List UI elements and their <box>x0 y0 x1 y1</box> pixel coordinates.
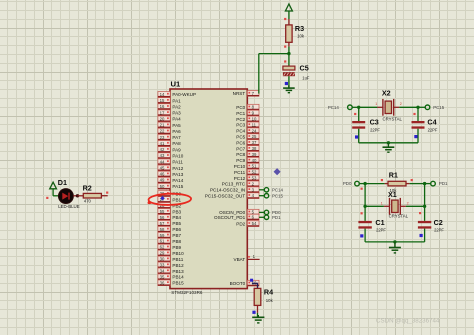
svg-text:C4: C4 <box>427 118 436 127</box>
svg-text:54: 54 <box>252 221 257 226</box>
svg-text:PD0: PD0 <box>343 181 352 186</box>
svg-text:PC9: PC9 <box>236 158 245 163</box>
svg-text:BOOT0: BOOT0 <box>230 281 246 286</box>
svg-text:R4: R4 <box>264 287 273 296</box>
svg-text:PB5: PB5 <box>172 221 181 226</box>
svg-text:PA6: PA6 <box>172 129 181 134</box>
svg-text:PB14: PB14 <box>172 275 184 280</box>
svg-text:X1: X1 <box>388 190 397 199</box>
svg-text:PC5: PC5 <box>236 135 245 140</box>
svg-text:44: 44 <box>160 159 165 164</box>
svg-text:CSDN @qq_38236744: CSDN @qq_38236744 <box>376 318 440 325</box>
svg-text:PA15: PA15 <box>172 184 183 189</box>
svg-text:PA14: PA14 <box>172 178 183 183</box>
svg-text:23: 23 <box>160 135 165 140</box>
svg-text:PC10: PC10 <box>234 164 246 169</box>
svg-text:PC15: PC15 <box>272 193 284 198</box>
svg-text:PA3: PA3 <box>172 111 181 116</box>
svg-text:34: 34 <box>160 268 165 273</box>
svg-text:35: 35 <box>160 274 165 279</box>
svg-text:PC12: PC12 <box>234 176 246 181</box>
svg-text:22PF: 22PF <box>434 228 444 233</box>
svg-text:22PF: 22PF <box>428 127 438 132</box>
svg-text:PC7: PC7 <box>236 146 245 151</box>
svg-text:21: 21 <box>160 123 165 128</box>
svg-text:PC4: PC4 <box>236 129 245 134</box>
svg-text:PB6: PB6 <box>172 227 181 232</box>
svg-text:PC15: PC15 <box>433 105 445 110</box>
svg-text:PC15-OSC32_OUT: PC15-OSC32_OUT <box>205 194 246 199</box>
svg-text:38: 38 <box>252 146 257 151</box>
svg-text:PB8: PB8 <box>172 239 181 244</box>
svg-text:PC11: PC11 <box>234 170 246 175</box>
svg-text:PC14-OSC32_IN: PC14-OSC32_IN <box>210 188 245 193</box>
svg-text:PA0-WKUP: PA0-WKUP <box>172 92 196 97</box>
svg-text:C3: C3 <box>370 118 379 127</box>
svg-text:50: 50 <box>160 184 165 189</box>
svg-text:PA7: PA7 <box>172 135 181 140</box>
svg-text:52: 52 <box>252 170 257 175</box>
svg-text:20: 20 <box>160 116 165 121</box>
svg-text:PD1: PD1 <box>272 215 281 220</box>
svg-text:PA4: PA4 <box>172 117 181 122</box>
svg-text:D1: D1 <box>58 178 67 187</box>
svg-text:1uF: 1uF <box>302 75 310 80</box>
svg-text:PA5: PA5 <box>172 123 181 128</box>
svg-text:PA13: PA13 <box>172 172 183 177</box>
svg-text:C2: C2 <box>434 218 443 227</box>
svg-text:X2: X2 <box>382 89 391 98</box>
svg-text:16: 16 <box>160 104 165 109</box>
svg-text:PB1: PB1 <box>172 197 181 202</box>
svg-text:PC14: PC14 <box>328 105 340 110</box>
svg-text:40: 40 <box>252 158 257 163</box>
svg-text:39: 39 <box>252 152 257 157</box>
svg-text:57: 57 <box>160 221 165 226</box>
svg-text:30: 30 <box>160 257 165 262</box>
svg-text:61: 61 <box>160 239 165 244</box>
svg-text:U1: U1 <box>171 79 181 88</box>
svg-text:PC3: PC3 <box>236 123 245 128</box>
svg-text:NRST: NRST <box>233 91 246 96</box>
svg-text:1: 1 <box>375 102 377 106</box>
svg-text:2: 2 <box>400 102 402 106</box>
svg-text:C1: C1 <box>375 218 384 227</box>
svg-text:470: 470 <box>84 199 92 204</box>
svg-text:42: 42 <box>160 147 165 152</box>
svg-text:41: 41 <box>160 141 165 146</box>
svg-text:PA10: PA10 <box>172 154 183 159</box>
svg-text:PA12: PA12 <box>172 166 183 171</box>
svg-text:62: 62 <box>160 245 165 250</box>
svg-text:PA2: PA2 <box>172 104 181 109</box>
svg-text:PB13: PB13 <box>172 269 184 274</box>
svg-text:PC6: PC6 <box>236 140 245 145</box>
svg-text:22: 22 <box>160 129 165 134</box>
svg-text:49: 49 <box>160 178 165 183</box>
svg-text:PD2: PD2 <box>236 222 245 227</box>
svg-text:17: 17 <box>160 110 165 115</box>
svg-text:PC0: PC0 <box>236 105 245 110</box>
svg-text:C5: C5 <box>300 64 309 73</box>
svg-text:VBAT: VBAT <box>234 257 246 262</box>
svg-text:STM32F103R6: STM32F103R6 <box>171 290 203 295</box>
svg-text:PB15: PB15 <box>172 281 184 286</box>
svg-text:PC1: PC1 <box>236 111 245 116</box>
svg-text:CRYSTAL: CRYSTAL <box>383 117 403 122</box>
svg-text:51: 51 <box>252 164 257 169</box>
svg-text:10: 10 <box>252 117 257 122</box>
svg-text:PB9: PB9 <box>172 245 181 250</box>
svg-text:R2: R2 <box>83 183 92 192</box>
svg-text:15: 15 <box>160 98 165 103</box>
svg-text:53: 53 <box>252 176 257 181</box>
svg-text:PD1: PD1 <box>439 181 448 186</box>
svg-text:PC8: PC8 <box>236 152 245 157</box>
svg-text:PA11: PA11 <box>172 160 183 165</box>
svg-text:45: 45 <box>160 165 165 170</box>
svg-text:PA9: PA9 <box>172 147 181 152</box>
svg-text:LED-BLUE: LED-BLUE <box>58 204 80 209</box>
svg-text:58: 58 <box>160 227 165 232</box>
svg-text:33: 33 <box>160 263 165 268</box>
svg-text:PB3: PB3 <box>172 209 181 214</box>
svg-text:CRYSTAL: CRYSTAL <box>389 214 409 219</box>
svg-text:PB7: PB7 <box>172 233 181 238</box>
svg-text:PC13_RTC: PC13_RTC <box>222 182 246 187</box>
svg-text:PB10: PB10 <box>172 251 184 256</box>
svg-text:R3: R3 <box>295 24 304 33</box>
svg-text:2: 2 <box>407 202 409 206</box>
svg-text:R1: R1 <box>389 170 398 179</box>
svg-text:14: 14 <box>160 92 165 97</box>
svg-text:PB12: PB12 <box>172 263 184 268</box>
svg-text:25: 25 <box>252 134 257 139</box>
svg-text:37: 37 <box>252 140 257 145</box>
svg-text:22PF: 22PF <box>376 228 386 233</box>
svg-text:PA8: PA8 <box>172 141 181 146</box>
svg-text:PC14: PC14 <box>272 187 284 192</box>
svg-text:OSCOUT_PD1: OSCOUT_PD1 <box>214 215 246 220</box>
svg-text:11: 11 <box>252 122 257 127</box>
svg-text:24: 24 <box>252 128 257 133</box>
svg-text:10k: 10k <box>266 298 274 303</box>
svg-text:PB11: PB11 <box>172 257 183 262</box>
svg-text:1: 1 <box>381 202 383 206</box>
svg-text:59: 59 <box>160 233 165 238</box>
svg-text:43: 43 <box>160 153 165 158</box>
svg-text:10k: 10k <box>297 34 305 39</box>
svg-text:36: 36 <box>160 280 165 285</box>
svg-text:55: 55 <box>160 209 165 214</box>
svg-text:56: 56 <box>160 215 165 220</box>
svg-text:46: 46 <box>160 172 165 177</box>
svg-text:PB4: PB4 <box>172 215 181 220</box>
svg-text:PA1: PA1 <box>172 98 181 103</box>
svg-text:29: 29 <box>160 251 165 256</box>
svg-text:22PF: 22PF <box>370 127 380 132</box>
svg-text:PC2: PC2 <box>236 117 245 122</box>
